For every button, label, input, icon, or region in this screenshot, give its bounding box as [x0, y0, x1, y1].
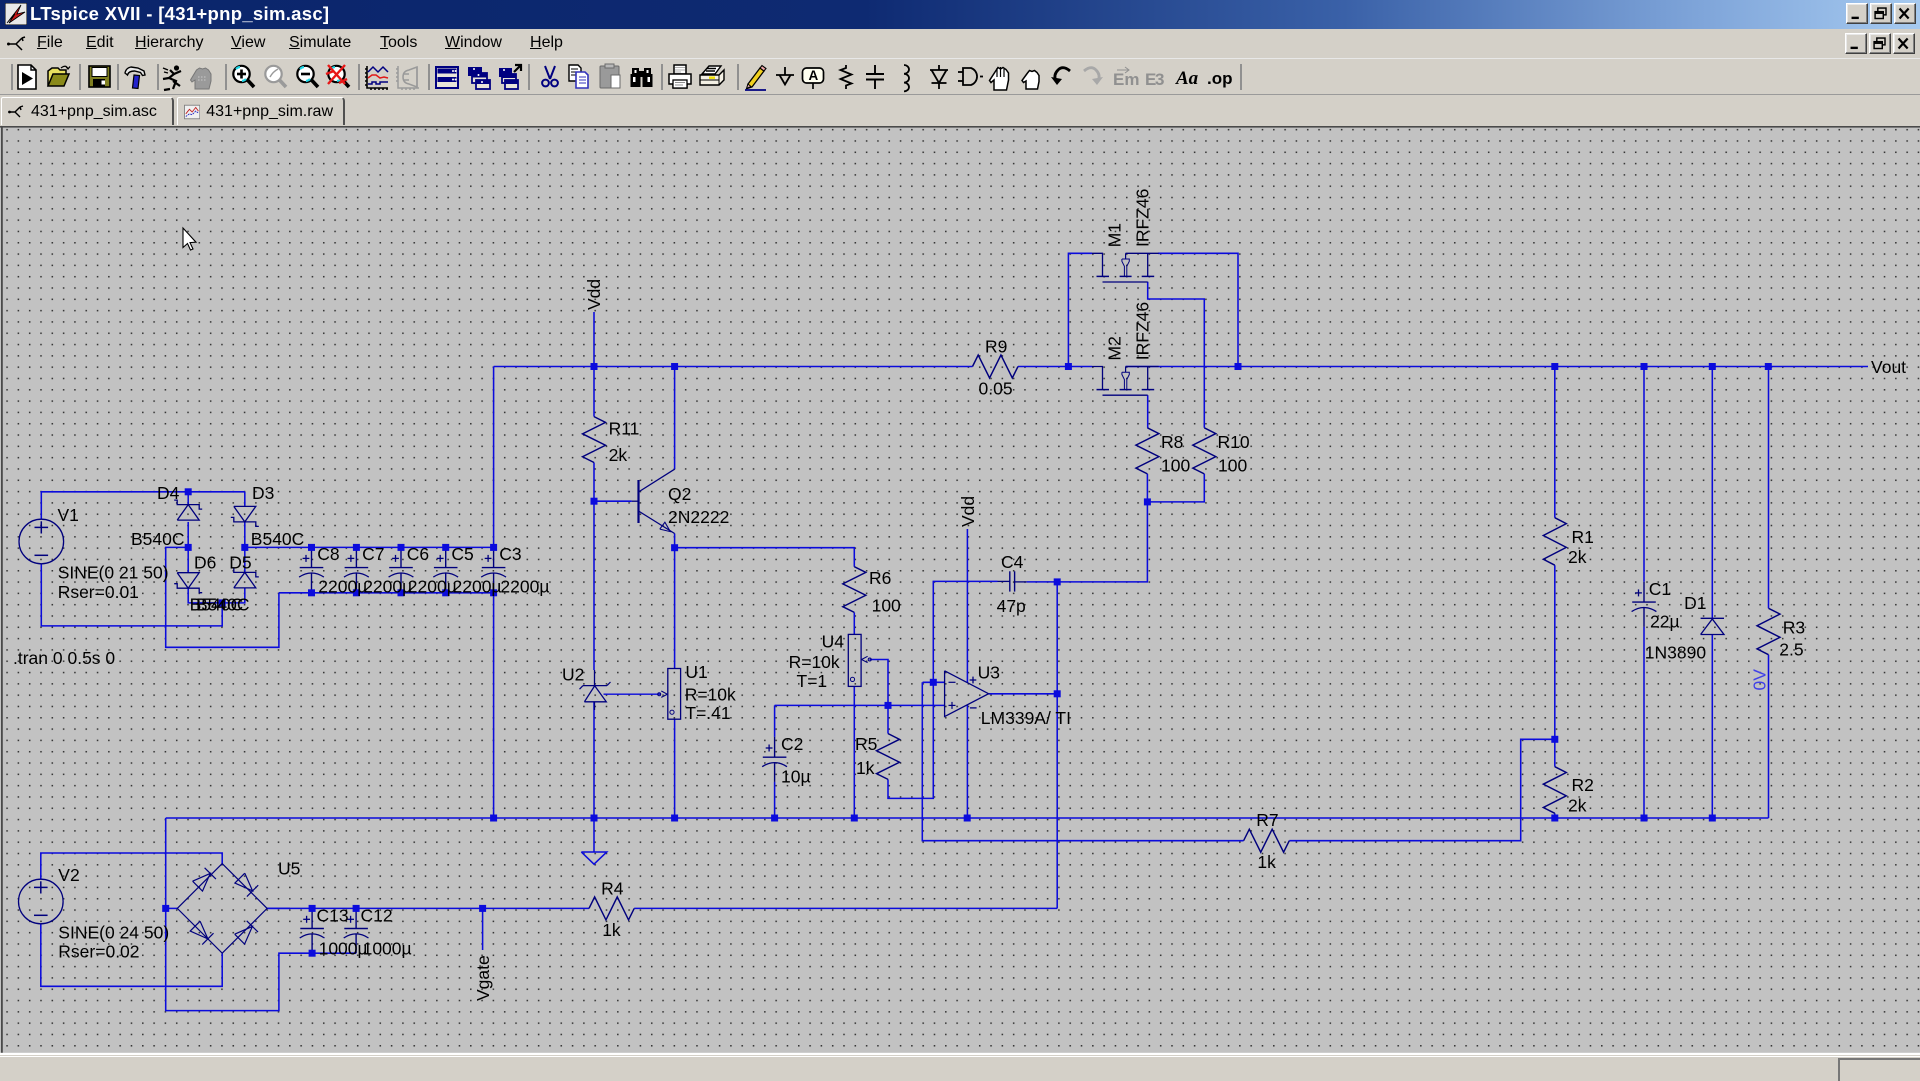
wire gnd stub	[593, 818, 595, 852]
svg-text:C3: C3	[499, 544, 521, 564]
wire R5 bottom loop to minus node riser	[888, 682, 933, 798]
wire R2 bottom	[1554, 813, 1556, 818]
svg-text:2k: 2k	[1568, 796, 1587, 816]
wire C4 right lead to junction	[1027, 581, 1058, 583]
wire V1 bottom loop	[41, 564, 222, 626]
wire C4 junction to gates node riser	[1057, 502, 1147, 582]
svg-text:1N3890: 1N3890	[1645, 643, 1707, 663]
svg-text:2200µ: 2200µ	[318, 576, 367, 596]
svg-text:R7: R7	[1256, 810, 1278, 830]
svg-text:R11: R11	[609, 419, 640, 439]
svg-text:T=.41: T=.41	[685, 703, 730, 723]
wire M1 drain left wire	[1068, 253, 1092, 366]
wire R5 top	[887, 705, 889, 733]
diode D6	[177, 573, 199, 589]
svg-text:Rser=0.01: Rser=0.01	[58, 582, 139, 602]
diode D1	[1701, 617, 1724, 619]
wire emitter node to R6 top	[675, 548, 855, 567]
wire DC- return loop (left)	[166, 547, 279, 647]
resistor R2	[1543, 767, 1566, 814]
menu bar	[0, 29, 1920, 58]
wire V2 top lead	[41, 853, 222, 879]
wire M1 gate jog to R10	[1148, 282, 1205, 428]
svg-text:1k: 1k	[602, 920, 621, 940]
wire D3 top corner	[244, 492, 246, 506]
resistor R3	[1757, 608, 1780, 654]
svg-text:B540C: B540C	[251, 529, 305, 549]
diode D3	[234, 506, 256, 522]
wire R7 right to divider node	[1289, 739, 1555, 840]
wire R2 top	[1554, 739, 1556, 766]
svg-text:2200µ: 2200µ	[363, 576, 412, 596]
capacitor C6	[400, 547, 402, 567]
capacitor C13	[311, 908, 313, 928]
capacitor C2	[774, 737, 776, 757]
svg-text:LM339A/ TI: LM339A/ TI	[981, 708, 1071, 728]
wire ground rail	[166, 817, 1769, 819]
svg-text:2k: 2k	[609, 445, 628, 465]
diode D4	[177, 505, 199, 520]
svg-text:C6: C6	[407, 544, 429, 564]
svg-text:1k: 1k	[1257, 852, 1276, 872]
wire R8 bottom	[1146, 474, 1148, 502]
svg-text:R4: R4	[601, 879, 624, 899]
svg-text:10µ: 10µ	[781, 766, 811, 786]
wire minus input line	[923, 681, 945, 683]
wire Q2 collector riser	[674, 367, 676, 470]
svg-text:C12: C12	[361, 905, 393, 925]
junctions	[591, 363, 598, 370]
svg-text:0V: 0V	[1750, 669, 1770, 691]
svg-text:2N2222: 2N2222	[668, 507, 729, 527]
wire M2 gate to R8	[1147, 395, 1149, 428]
wire Vout rail from M2 source to Vout label	[1126, 366, 1868, 368]
resistor R10	[1193, 428, 1216, 474]
svg-text:C1: C1	[1649, 579, 1671, 599]
wire R7 left riser from minus line	[922, 682, 1243, 840]
wire V2 bottom loop	[41, 924, 222, 987]
svg-text:C4: C4	[1001, 552, 1024, 572]
svg-text:1000µ: 1000µ	[363, 938, 412, 958]
svg-text:D6: D6	[194, 552, 216, 572]
svg-text:2.5: 2.5	[1779, 639, 1803, 659]
svg-text:R2: R2	[1572, 775, 1594, 795]
wire U2 anode to ground rail	[593, 702, 595, 818]
wire cap top rail	[245, 546, 494, 548]
wire U4 bottom to ground rail	[853, 686, 855, 818]
svg-text:100: 100	[1218, 455, 1247, 475]
capacitor C12	[355, 908, 357, 928]
wire R10 bottom to gates node	[1147, 474, 1204, 502]
mouse cursor	[183, 228, 196, 250]
svg-text:U3: U3	[978, 662, 1000, 682]
svg-text:2200µ: 2200µ	[408, 576, 457, 596]
svg-text:B540C: B540C	[131, 529, 185, 549]
wire V1 top lead	[41, 492, 245, 520]
wire cap bottom rail	[279, 592, 494, 594]
svg-text:C7: C7	[362, 544, 384, 564]
capacitor C7	[355, 547, 357, 567]
svg-text:C2: C2	[781, 734, 803, 754]
diode D5	[234, 572, 256, 588]
ground	[581, 852, 606, 864]
wire main Vdd rail left of R9	[494, 366, 973, 368]
wire Vdd label stub at 594	[593, 312, 595, 417]
svg-text:D4: D4	[157, 483, 180, 503]
wire D4 top lead	[187, 492, 189, 505]
svg-text:D3: D3	[252, 483, 274, 503]
wire Vdd rail corner drop to cap rail	[493, 367, 495, 548]
svg-text:R9: R9	[985, 337, 1007, 357]
wire plus input line	[888, 704, 945, 706]
svg-text:R3: R3	[1783, 618, 1805, 638]
svg-text:V1: V1	[58, 505, 79, 525]
svg-text:T=1: T=1	[797, 671, 828, 691]
svg-text:C8: C8	[317, 544, 339, 564]
svg-text:1k: 1k	[856, 758, 875, 778]
svg-text:U4: U4	[822, 632, 845, 652]
svg-text:1000µ: 1000µ	[319, 938, 368, 958]
svg-text:Rser=0.02: Rser=0.02	[58, 942, 139, 962]
svg-text:C13: C13	[317, 905, 349, 925]
resistor R11	[583, 417, 606, 463]
resistor R9	[973, 355, 1019, 378]
svg-text:47p: 47p	[997, 596, 1026, 616]
transistor Q2	[637, 480, 639, 523]
wire R1 top	[1554, 367, 1556, 518]
svg-text:R=10k: R=10k	[685, 684, 736, 704]
svg-text:U2: U2	[562, 665, 584, 685]
wire Q2 emitter node to U1 top	[674, 534, 676, 669]
capacitor C3	[493, 547, 495, 567]
wire base node down to U2 cathode	[593, 501, 595, 670]
wire ground rail left drop	[166, 818, 312, 1011]
wire D4 anode to mid junction	[187, 522, 189, 548]
svg-text:3: 3	[1155, 70, 1164, 89]
svg-text:Em: Em	[1113, 70, 1139, 89]
wire gate supply rail right of R4	[634, 907, 1057, 909]
svg-text:M1: M1	[1105, 223, 1125, 247]
wire U4 wiper to plus-input node	[870, 660, 889, 706]
wire U1 bottom to ground rail	[674, 719, 676, 818]
wire C1 top lead	[1643, 367, 1645, 582]
svg-text:Q2: Q2	[668, 484, 691, 504]
resistor R6	[843, 567, 866, 613]
wire base node to Q2 base	[594, 500, 632, 502]
wire R3 top lead	[1768, 367, 1770, 609]
resistor R1	[1543, 518, 1566, 566]
tab bar	[0, 95, 1920, 126]
zener U2 TL431	[594, 670, 596, 686]
svg-text:2200µ: 2200µ	[500, 576, 549, 596]
bridge rectifier U5	[177, 864, 267, 954]
svg-text:2200µ: 2200µ	[453, 576, 502, 596]
wire D6 leads	[187, 547, 189, 572]
svg-text:IRFZ46: IRFZ46	[1133, 189, 1153, 247]
wire R11 bottom to base node	[593, 463, 595, 502]
svg-text:D5: D5	[229, 552, 251, 572]
capacitor C4	[1009, 571, 1011, 591]
svg-text:R6: R6	[869, 568, 891, 588]
potentiometer U1	[668, 669, 681, 720]
svg-text:R=10k: R=10k	[789, 652, 840, 672]
svg-text:IRFZ46: IRFZ46	[1133, 302, 1153, 360]
wire U3 power vertical Vdd to V+ pin	[966, 529, 968, 683]
status bar	[0, 1056, 1920, 1080]
svg-text:.tran 0 0.5s 0: .tran 0 0.5s 0	[13, 648, 115, 668]
wire D1 bottom lead	[1711, 635, 1713, 819]
wire minus node to C4 left	[933, 581, 997, 682]
svg-text:U5: U5	[278, 859, 300, 879]
potentiometer U4	[848, 634, 861, 686]
resistor R5	[877, 734, 900, 780]
svg-text:Vout: Vout	[1871, 357, 1906, 377]
svg-text:C5: C5	[451, 544, 473, 564]
wire rail R9 to M2 drain	[1018, 366, 1092, 368]
svg-text:2k: 2k	[1568, 547, 1587, 567]
svg-text:V2: V2	[58, 865, 79, 885]
wire C2 leads	[774, 705, 776, 737]
wire M1 source rail	[1158, 253, 1238, 366]
wire R3 bottom lead	[1768, 655, 1770, 818]
toolbar	[0, 58, 1920, 95]
svg-text:R10: R10	[1218, 432, 1250, 452]
wire Vgate stub	[482, 908, 484, 950]
wire R1 bottom to divider node	[1554, 565, 1556, 739]
svg-text:SINE(0 21 50): SINE(0 21 50)	[58, 563, 169, 583]
title bar	[0, 0, 1920, 29]
op-amp U3 LM339	[945, 671, 989, 717]
mosfet M1	[1092, 253, 1103, 276]
wire D1 top lead	[1711, 367, 1713, 619]
wire C1 bottom lead	[1643, 627, 1645, 818]
resistor R8	[1136, 428, 1159, 474]
wire U3 output riser	[1056, 582, 1058, 909]
svg-text:R5: R5	[855, 734, 877, 754]
voltage source V2	[19, 879, 64, 924]
wire C3 bottom drop to ground rail	[493, 593, 495, 818]
svg-text:Vgate: Vgate	[473, 955, 493, 1001]
wire bridge left vertex lead	[166, 907, 178, 909]
svg-text:B540C: B540C	[196, 595, 250, 615]
voltage source V1	[19, 519, 64, 564]
svg-text:R1: R1	[1572, 527, 1594, 547]
svg-text:U1: U1	[685, 662, 707, 682]
svg-text:A: A	[809, 68, 819, 83]
resistor R7	[1244, 829, 1290, 852]
wire U3 output lead	[989, 693, 1058, 695]
wire C2 top wire	[775, 704, 888, 706]
capacitor C8	[311, 547, 313, 567]
svg-text:100: 100	[872, 596, 901, 616]
wire C13 C12 bottom rail	[312, 952, 356, 954]
wire U3 V- pin to ground	[966, 705, 968, 818]
wire D3 cathode to mid junction	[244, 522, 246, 548]
svg-text:22µ: 22µ	[1650, 611, 1680, 631]
svg-text:R8: R8	[1161, 432, 1183, 452]
capacitor C1	[1643, 582, 1645, 602]
wire R6 bottom to U4 top	[853, 612, 855, 634]
svg-text:D1: D1	[1684, 593, 1706, 613]
svg-text:Vdd: Vdd	[584, 279, 604, 310]
svg-text:0.05: 0.05	[979, 379, 1013, 399]
wire D5 top lead	[244, 547, 246, 572]
U2 ref line to U1 wiper	[604, 693, 661, 695]
svg-text:100: 100	[1161, 455, 1190, 475]
capacitor C5	[445, 547, 447, 567]
resistor R4	[589, 897, 634, 920]
wire gate supply rail left of R4	[267, 907, 589, 909]
svg-text:SINE(0 24 50): SINE(0 24 50)	[58, 923, 169, 943]
mosfet M2	[1092, 367, 1103, 390]
wire bridge right vertex lead	[267, 907, 290, 909]
svg-text:M2: M2	[1105, 336, 1125, 360]
svg-text:.op: .op	[1207, 69, 1233, 88]
svg-text:Vdd: Vdd	[958, 496, 978, 527]
svg-text:Aa: Aa	[1175, 68, 1199, 89]
